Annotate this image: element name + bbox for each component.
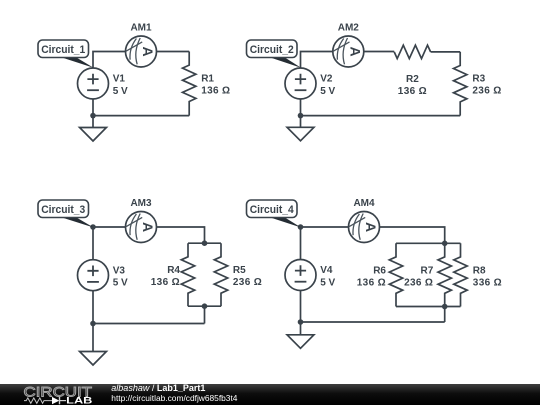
svg-text:Circuit_2: Circuit_2	[250, 44, 294, 56]
svg-text:V1: V1	[113, 74, 126, 85]
svg-text:AM3: AM3	[130, 198, 152, 209]
ground GND3	[80, 324, 107, 366]
svg-text:V4: V4	[320, 265, 333, 276]
ammeter AM4	[349, 212, 380, 243]
wire R2 to R3	[431, 51, 461, 53]
svg-text:Circuit_1: Circuit_1	[41, 44, 85, 56]
wire AM2 to R2	[364, 51, 394, 53]
voltage source V2	[285, 68, 316, 99]
svg-text:R4: R4	[167, 265, 180, 276]
svg-text:R5: R5	[233, 265, 246, 276]
svg-text:5 V: 5 V	[320, 86, 335, 97]
svg-text:236 Ω: 236 Ω	[472, 86, 501, 97]
svg-text:albashaw / Lab1_Part1: albashaw / Lab1_Part1	[111, 383, 205, 393]
resistor R6	[389, 243, 402, 306]
svg-text:V3: V3	[113, 265, 126, 276]
parallel bank top rail C3	[188, 242, 221, 244]
svg-text:LAB: LAB	[66, 395, 93, 405]
resistor R7	[438, 243, 451, 306]
wire top: V2 to AM2	[301, 52, 333, 69]
voltage source V4	[285, 260, 316, 291]
voltage source V3	[78, 260, 109, 291]
svg-text:5 V: 5 V	[320, 277, 335, 288]
node label Circuit_1	[38, 40, 94, 68]
wire top node to AM3	[93, 226, 125, 228]
junction dots C4	[298, 224, 304, 230]
svg-text:136 Ω: 136 Ω	[398, 86, 427, 97]
ground GND4	[287, 322, 314, 348]
svg-text:236 Ω: 236 Ω	[233, 277, 262, 288]
wire top: V1 to AM1	[93, 52, 125, 69]
svg-text:A: A	[347, 46, 363, 56]
wire top node to AM4	[301, 226, 349, 228]
svg-text:V2: V2	[320, 74, 333, 85]
node junction C2	[298, 113, 304, 119]
bottom rail C3	[93, 291, 205, 324]
wire node to V4	[300, 227, 302, 260]
svg-text:R6: R6	[373, 265, 386, 276]
node junction C1	[90, 113, 96, 119]
node label Circuit_4	[247, 200, 302, 228]
svg-text:136 Ω: 136 Ω	[201, 86, 230, 97]
svg-text:136 Ω: 136 Ω	[357, 278, 386, 289]
wire bottom rail C2	[301, 99, 461, 116]
parallel bank top rail C4	[396, 242, 461, 244]
ground GND1	[80, 116, 107, 141]
svg-text:AM2: AM2	[338, 23, 360, 34]
svg-text:236 Ω: 236 Ω	[404, 278, 433, 289]
ammeter AM1	[126, 36, 157, 67]
svg-text:5 V: 5 V	[113, 278, 128, 289]
svg-text:R3: R3	[472, 74, 485, 85]
svg-text:R2: R2	[406, 74, 419, 85]
ground GND2	[287, 116, 314, 141]
wire AM4 to parallel bank	[380, 227, 445, 243]
resistor R3	[454, 52, 467, 116]
node label Circuit_3	[38, 200, 94, 228]
ammeter AM2	[333, 36, 364, 67]
voltage source V1	[78, 68, 109, 99]
wire node to V3	[92, 227, 94, 260]
svg-text:http://circuitlab.com/cdfjw685: http://circuitlab.com/cdfjw685fb3t4	[111, 393, 237, 403]
wire bank to bottom rail C3	[204, 306, 206, 323]
svg-text:A: A	[140, 222, 156, 232]
wire bank to bottom rail C4	[444, 307, 446, 323]
svg-text:R8: R8	[473, 265, 486, 276]
resistor R4	[181, 243, 194, 306]
svg-text:Circuit_4: Circuit_4	[250, 204, 295, 216]
node label Circuit_2	[247, 40, 302, 68]
svg-text:R7: R7	[421, 265, 434, 276]
resistor R8	[454, 243, 467, 306]
svg-text:336 Ω: 336 Ω	[473, 278, 502, 289]
resistor R1	[183, 52, 196, 116]
bottom rail C4	[301, 291, 445, 322]
svg-text:136 Ω: 136 Ω	[151, 277, 180, 288]
svg-text:AM4: AM4	[353, 198, 375, 209]
svg-text:A: A	[140, 46, 156, 56]
svg-text:5 V: 5 V	[113, 86, 128, 97]
wire AM1 to R1	[157, 51, 189, 53]
svg-text:AM1: AM1	[130, 23, 152, 34]
junction dots C3	[90, 224, 96, 230]
parallel bank bottom rail C4	[396, 306, 461, 308]
CircuitLab logo	[24, 384, 94, 406]
svg-text:Circuit_3: Circuit_3	[41, 204, 85, 216]
wire bottom rail C1	[93, 99, 189, 116]
parallel bank bottom rail C3	[188, 305, 221, 307]
resistor R5	[214, 243, 227, 306]
svg-text:R1: R1	[201, 74, 214, 85]
wire AM3 to parallel bank	[157, 227, 205, 243]
ammeter AM3	[126, 212, 157, 243]
svg-text:A: A	[363, 222, 379, 232]
resistor R2	[394, 45, 430, 58]
